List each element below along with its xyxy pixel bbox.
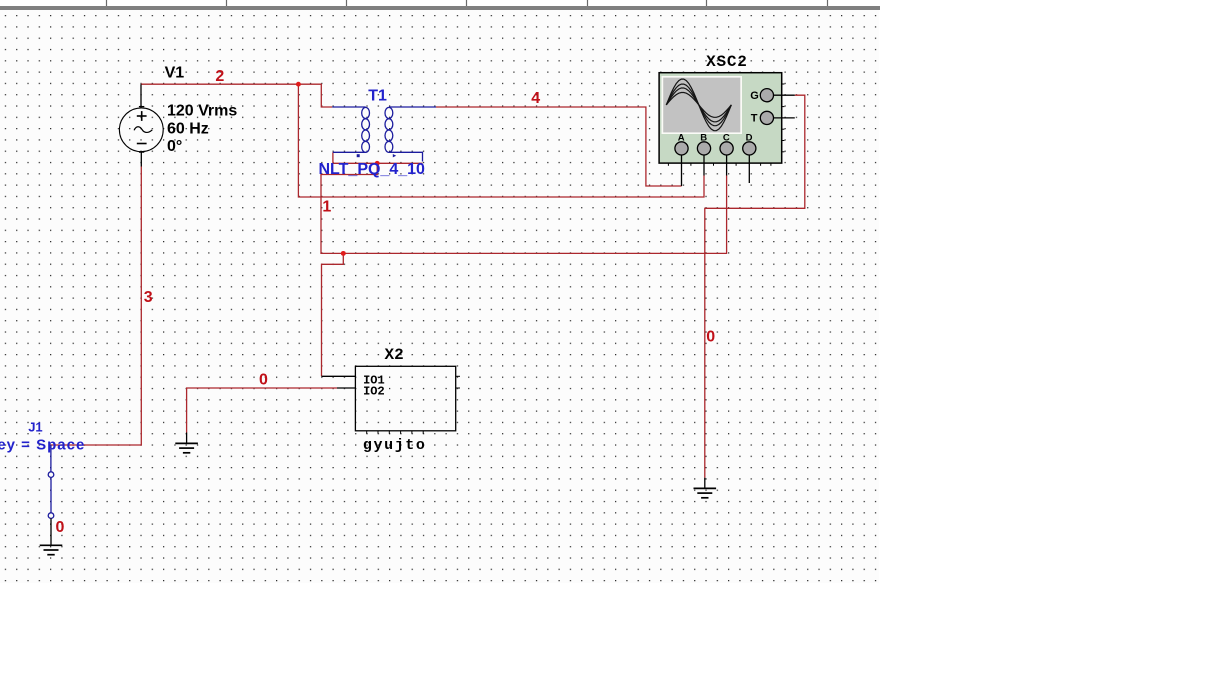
svg-text:G: G (750, 90, 759, 102)
svg-text:gyujto: gyujto (363, 437, 427, 454)
svg-text:Key = Space: Key = Space (0, 437, 85, 454)
svg-text:0°: 0° (167, 138, 182, 155)
svg-text:IO2: IO2 (363, 385, 385, 399)
svg-text:C: C (723, 132, 730, 143)
svg-text:60 Hz: 60 Hz (167, 121, 209, 138)
svg-text:120 Vrms: 120 Vrms (167, 103, 237, 120)
svg-text:2: 2 (215, 68, 224, 85)
svg-text:3: 3 (144, 289, 153, 306)
svg-text:B: B (700, 132, 707, 143)
svg-text:0: 0 (56, 519, 65, 536)
svg-text:D: D (746, 132, 753, 143)
svg-text:X2: X2 (385, 346, 404, 364)
svg-text:T: T (751, 113, 758, 125)
svg-text:1: 1 (322, 199, 331, 216)
svg-text:NLT_PQ_4_10: NLT_PQ_4_10 (319, 161, 426, 178)
svg-text:0: 0 (706, 329, 715, 346)
svg-text:T1: T1 (368, 88, 387, 105)
svg-text:J1: J1 (28, 419, 42, 434)
svg-text:0: 0 (259, 372, 268, 389)
svg-text:XSC2: XSC2 (706, 53, 748, 71)
svg-text:4: 4 (531, 90, 540, 107)
svg-text:V1: V1 (165, 65, 185, 82)
svg-text:A: A (678, 132, 685, 143)
